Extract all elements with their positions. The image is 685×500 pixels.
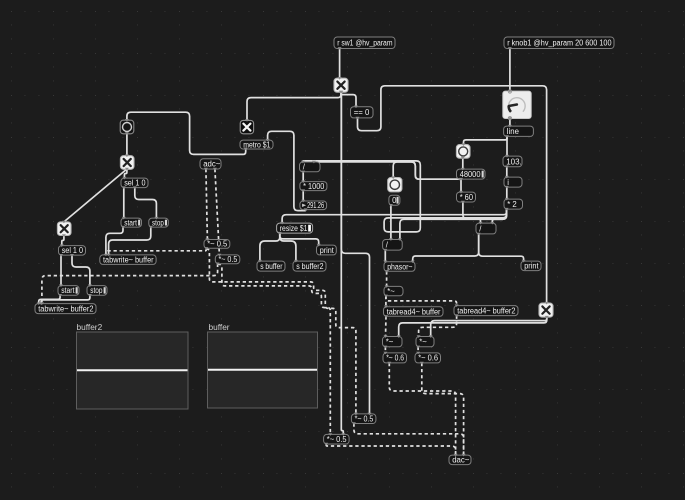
wire bang B1 -> toggle TL [126,133,128,155]
wire toggle T1 -> toggle T2 [247,92,341,120]
svg-text:r sw1 @hv_param: r sw1 @hv_param [337,39,392,48]
array buffer2 graph [77,322,189,409]
message start #2 [58,286,79,296]
svg-text:tabwrite~ buffer: tabwrite~ buffer [103,256,154,265]
object *~ R [416,337,434,347]
message stop #2 [87,286,107,296]
wire *~ R -> *~ 0.6 R [417,347,419,353]
wire * 2 -> resize $1 [282,209,507,223]
object dac~ [449,455,471,465]
wire resize -> s buffer2 [280,233,296,261]
object line [504,126,534,136]
svg-text:start: start [61,286,75,295]
knob (r knob1 GUI) [503,90,531,120]
svg-text:0: 0 [392,196,397,205]
wire phasor~ -> *~ mid [386,271,388,286]
object *~ 0.5 #2 [215,255,240,264]
object *~ 0.6 R [415,353,441,363]
wire * 1000 -> number 291.26 [302,191,304,201]
toggle TL [120,156,134,170]
wire *~ mid -> tabread4~ buffer2 [386,296,457,306]
svg-text:*~ 0.5: *~ 0.5 [355,415,374,424]
wire msg 48000 -> / #1 right [314,162,460,179]
svg-text:48000: 48000 [460,170,481,179]
wire *~0.5 #1 -> *~0.5 A left [206,248,356,414]
wire *~ 0.6 L -> dac~ left [389,363,455,455]
wire *~ 0.5 A -> dac~ right [354,424,464,456]
svg-text:tabread4~ buffer: tabread4~ buffer [387,307,441,316]
wire r sw1 -> toggle T1 [339,48,341,78]
svg-text:dac~: dac~ [452,456,470,465]
wire resize -> print1 [280,233,319,245]
svg-text:s buffer2: s buffer2 [296,262,323,271]
message stop #1 [149,218,169,227]
object i [504,177,522,187]
object == 0 [351,107,374,118]
svg-text:stop: stop [152,218,164,227]
bang B3 [388,178,402,192]
wire *~ mid -> tabread4~ buffer [385,296,387,307]
wire tabread4~ buffer -> *~ L [385,316,388,336]
wire adc~ R -> *~0.5 #2 [215,169,220,255]
wire *~0.5 #1 -> tabwrite~ buffer [106,248,206,255]
svg-text:sel 1 0: sel 1 0 [62,246,84,255]
object * 1000 [300,182,327,191]
object r knob1 [504,37,614,49]
toggle T3 [539,303,553,317]
object s buffer [257,261,285,271]
wire resize -> s buffer [260,233,280,261]
object metro $1 [240,140,273,149]
wire start1 -> tabwrite~ buffer [106,227,123,255]
svg-text:print: print [320,246,335,255]
svg-text:buffer2: buffer2 [77,322,103,332]
object resize $1 (editing) [277,223,313,233]
svg-text:print: print [524,262,539,271]
wire *~0.5 #2 -> *~0.5 B left [218,264,331,435]
svg-text:103.: 103. [506,157,522,166]
svg-text:i: i [507,178,509,187]
wire line -> bang B2 [464,136,508,144]
object tabread4~ buffer [384,307,444,317]
object / #3 [383,240,403,251]
object *~ 0.5 A [351,414,376,424]
message 0 [389,195,400,205]
object adc~ [200,159,221,169]
wire sel2 -> stop2 [72,255,90,285]
object * 60 [457,192,476,202]
wire metro -> bang B1 [127,112,246,154]
wire line -> number 103. [506,136,508,156]
array buffer graph [208,322,318,408]
object print #2 [521,261,541,271]
wire msg 0 -> / #3 [390,205,392,239]
message start #1 [121,218,142,227]
wire / #1 -> * 1000 [302,172,304,182]
svg-text:291.26: 291.26 [307,201,324,210]
object tabwrite~ buffer [100,255,156,265]
svg-text:tabread4~ buffer2: tabread4~ buffer2 [457,306,515,315]
toggle T1 (sw1) [334,78,348,92]
svg-text:line: line [507,127,519,136]
object phasor~ [384,262,415,272]
svg-text:*~: *~ [386,338,394,347]
wire i -> * 2 [506,187,508,199]
wire toggle TL -> toggle T2L diagonal [64,169,127,222]
svg-text:* 1000: * 1000 [303,182,325,191]
object tabwrite~ buffer2 [35,304,96,314]
svg-text:phasor~: phasor~ [387,262,413,271]
svg-text:*~ 0.5: *~ 0.5 [207,240,228,249]
svg-text:*~ 0.5: *~ 0.5 [327,435,347,444]
svg-text:r knob1 @hv_param 20 600 100: r knob1 @hv_param 20 600 100 [507,39,612,48]
svg-text:buffer: buffer [209,322,230,332]
wire bang B2 -> msg 48000 [462,158,464,169]
toggle T2L [57,222,71,236]
svg-text:* 2: * 2 [507,200,517,209]
wire sel2 -> start2 [60,255,62,285]
object *~ 0.5 B [324,434,350,444]
wire toggle T3 -> *~ R right [431,317,547,336]
svg-text:s buffer: s buffer [260,262,283,271]
wire == 0 -> toggle T3 [358,86,547,303]
svg-text:resize $1: resize $1 [280,224,308,233]
wire *~ L -> *~ 0.6 L [384,347,386,353]
wire * 2 -> / #3 right [400,209,507,239]
svg-text:* 60: * 60 [460,193,474,202]
wire toggle TL -> sel 1 0 #1 [124,169,127,178]
wire msg 48000 -> bang B3 [393,162,460,179]
wire * 2 -> / #2 right [492,209,506,223]
wire * 2 -> / #1 left [303,161,507,232]
svg-text:*~: *~ [419,338,427,347]
object / #1 [300,162,321,172]
wire toggle T1 -> *~0.5 B right [341,92,343,434]
bang B2 [456,145,470,159]
svg-text:== 0: == 0 [354,108,370,117]
wire / #2 -> phasor right [413,234,479,262]
object sel 1 0 #1 [121,178,148,188]
wire *~ 0.6 R -> dac~ right [422,363,464,455]
wire msg 48000 -> * 60 [460,179,462,192]
wire toggle T1 -> == 0 [341,92,356,107]
message 48000 [457,169,486,179]
bang B1 [120,120,134,134]
wire *~0.5 #2 -> tabwrite~ buffer2 [42,264,218,304]
wire / #2 -> print2 [479,234,524,261]
wire sel1 -> start1 [123,188,125,219]
wire start2 -> tabwrite~ buffer2 [39,295,60,303]
wire stop2 -> tabwrite~ buffer2 [41,295,90,303]
svg-text:tabwrite~ buffer2: tabwrite~ buffer2 [38,304,93,313]
wire / #3 -> phasor left [384,250,386,262]
wire number 103. -> i [506,167,508,177]
iolet nubs [37,47,549,456]
svg-text:*~: *~ [387,287,395,296]
object *~ mid [384,286,403,295]
object *~ 0.6 L [383,353,407,363]
wire adc~ L -> *~0.5 #1 [206,169,208,240]
toggle T2 (metro on) [240,120,253,133]
object tabread4~ buffer2 [454,306,518,316]
object * 2 [504,199,523,209]
object sel 1 0 #2 [59,246,86,256]
svg-text:*~ 0.5: *~ 0.5 [219,255,238,264]
wire * 60 -> / #2 left [463,202,481,223]
wire number 291.26 -> metro right inlet [268,131,306,210]
svg-text:*~ 0.6: *~ 0.6 [418,354,438,363]
svg-text:start: start [124,218,137,227]
number 103. [503,156,522,167]
svg-text:*~ 0.6: *~ 0.6 [386,354,404,363]
object s buffer2 [293,261,326,271]
wire toggle T3 -> *~ L right [399,317,547,336]
object print #1 [317,245,337,255]
svg-text:adc~: adc~ [203,160,221,169]
wire toggle T2L -> sel 1 0 #2 [62,236,64,246]
wire knob -> line [509,118,511,126]
number 291.26 [300,201,327,210]
wire *~ 0.5 B -> dac~ left [326,444,455,455]
object r sw1 [334,37,395,49]
svg-text:sel 1 0: sel 1 0 [124,179,146,188]
wire r knob1 -> knob [509,48,511,91]
object *~ 0.5 #1 [204,240,230,249]
object *~ L [383,337,403,347]
wire toggle T1 -> *~0.5 A right [341,92,369,414]
wire sel1 -> stop1 [135,188,157,219]
object / #2 [476,223,496,234]
wire stop1 -> tabwrite~ buffer [109,227,151,255]
svg-text:stop: stop [90,286,103,295]
wire tabread4~ buffer2 -> *~ R [419,316,457,337]
